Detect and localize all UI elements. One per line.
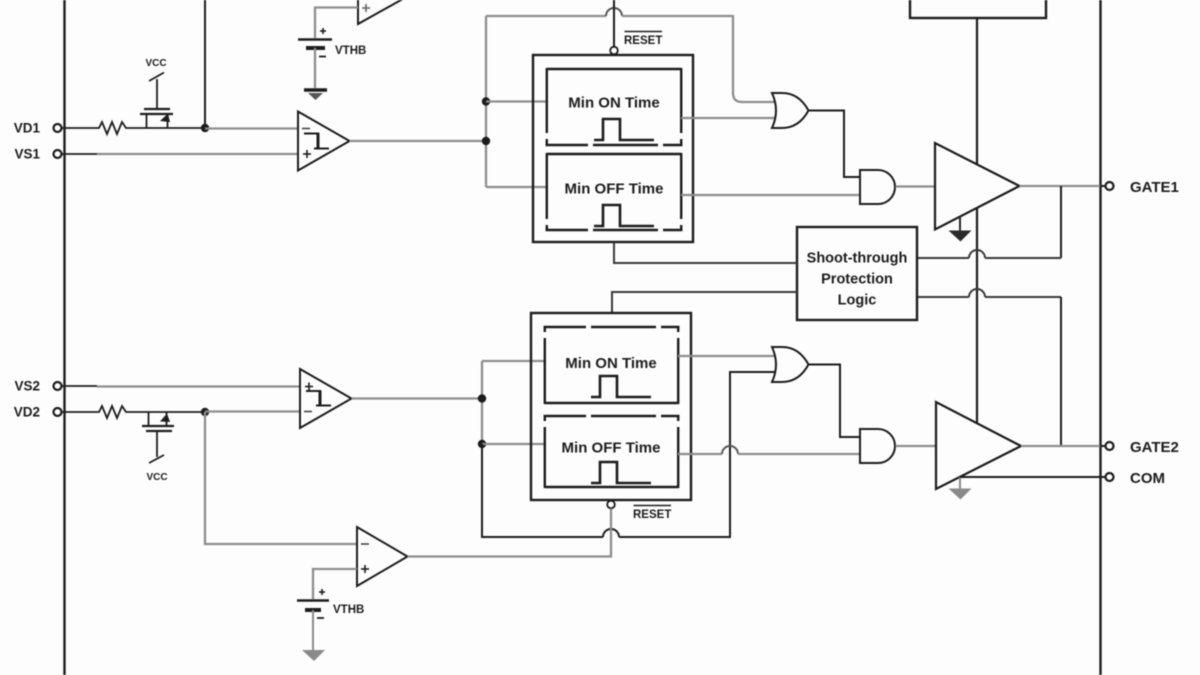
- wire feedback bottom ch2 (black, hop over RESET2): [482, 372, 779, 537]
- and-gate G2: [860, 170, 895, 204]
- wire shoot-through out1 with hop: [917, 250, 1061, 258]
- wire battery B1 to U0 plus: [315, 8, 358, 39]
- svg-text:VTHB: VTHB: [335, 45, 366, 57]
- wire Min OFF 2 output to AND2 (hop over feedback): [678, 446, 861, 454]
- one-shot Min OFF Time 1 box (dashed bottom): [546, 153, 683, 231]
- wire to Min OFF Time 1 input: [486, 186, 548, 188]
- resistor R1: [96, 122, 130, 134]
- or-gate G3: [772, 347, 809, 382]
- node junction dot (comparator U1 output): [482, 137, 490, 145]
- node junction dot (Min ON 1 input): [482, 97, 490, 105]
- Min OFF Time 2 pulse waveform: [591, 462, 651, 483]
- Min ON Time 1 label: [568, 95, 659, 112]
- wire feedback down to OR1 top input: [733, 15, 779, 102]
- comparator U0 (top, cut off): [358, 0, 410, 24]
- ground (battery B2): [302, 650, 325, 661]
- svg-text:Protection: Protection: [821, 272, 893, 288]
- svg-text:VS2: VS2: [14, 379, 40, 394]
- wire GATE1 to shoot-through out1 (black L): [1060, 186, 1062, 258]
- comparator U4 (bottom VTHB comparator): [357, 527, 408, 586]
- wire OR2 output to AND2 top input: [809, 365, 862, 438]
- comparator U2: [300, 369, 352, 428]
- wire junction column ch2 (vertical gray): [481, 361, 483, 444]
- pin VS1: [14, 147, 61, 162]
- wire node A up (black vertical): [204, 0, 206, 128]
- wire timer1 box to shoot-through in1: [614, 242, 797, 263]
- and-gate G4: [860, 429, 895, 463]
- RESET 1 bubble: [610, 47, 618, 55]
- wire timer2 box to shoot-through in2: [612, 292, 797, 313]
- RESET 1 label: [624, 32, 662, 48]
- svg-text:Min ON Time: Min ON Time: [565, 355, 656, 372]
- svg-text:Shoot-through: Shoot-through: [807, 251, 908, 267]
- svg-text:RESET: RESET: [633, 509, 671, 521]
- wire to Min ON Time 1 input: [486, 100, 548, 102]
- node junction dot (Min OFF 2 input): [478, 440, 486, 448]
- wire to Min OFF Time 2 input: [482, 443, 545, 445]
- pin GATE2: [1100, 439, 1179, 456]
- wire comparator U2 output: [352, 397, 483, 399]
- one-shot Min ON Time 2 box (dashed top): [544, 326, 680, 404]
- top box (cut off): [910, 0, 1046, 18]
- Min OFF Time 1 label: [565, 181, 664, 198]
- svg-text:RESET: RESET: [624, 35, 662, 47]
- wire comparator U1 output: [350, 140, 487, 142]
- one-shot Min OFF Time 2 box (dashed top): [544, 415, 680, 488]
- battery B2 (VTHB bottom): [297, 589, 329, 618]
- Min ON Time 2 label: [565, 355, 656, 372]
- svg-text:VCC: VCC: [145, 58, 166, 69]
- chip boundary right: [1099, 0, 1101, 675]
- wire COM from driver A2 ground: [960, 476, 1100, 478]
- VTHB label (top): [335, 45, 366, 57]
- pin COM: [1100, 470, 1165, 487]
- wire comparator U4 output to RESET2: [408, 509, 612, 557]
- wire resistor to node A: [130, 127, 205, 129]
- RESET 1 wire from top: [613, 0, 615, 47]
- svg-text:VS1: VS1: [14, 147, 40, 162]
- transistor Q1 (PMOS on VD1): [140, 73, 173, 129]
- driver A2 (gate driver buffer): [936, 402, 1021, 489]
- driver A1 (gate driver buffer): [935, 143, 1020, 230]
- wire VS1 to comparator U1 plus: [61, 153, 300, 155]
- wire top box to driver A1 (black vertical upper): [976, 18, 978, 164]
- pin VD1: [14, 121, 62, 136]
- wire VD1 to resistor: [61, 127, 96, 129]
- svg-text:VD1: VD1: [14, 121, 41, 136]
- VCC label (Q2 gate): [146, 472, 167, 483]
- svg-text:GATE1: GATE1: [1130, 179, 1179, 196]
- svg-text:Logic: Logic: [838, 293, 877, 309]
- wire VS2 to comparator U2 plus: [61, 385, 302, 388]
- pin GATE1: [1100, 179, 1179, 196]
- RESET 2 label: [633, 506, 671, 522]
- svg-text:VCC: VCC: [146, 472, 167, 483]
- timer block 1 outer box: [533, 55, 693, 242]
- wire to Min ON Time 2 input: [482, 360, 545, 362]
- node A junction dot (VD1): [201, 124, 209, 132]
- Min ON Time 2 pulse waveform: [591, 376, 651, 397]
- wire out2 down to GATE2 net: [1060, 297, 1062, 446]
- shoot-through protection logic box U5: [797, 227, 917, 320]
- wire junction column ch1 (vertical): [485, 16, 487, 187]
- Min OFF Time 1 pulse waveform: [594, 205, 654, 226]
- wire GATE1 output: [1020, 185, 1101, 187]
- wire driver A1 through to channel 2 (black vertical lower): [976, 208, 978, 423]
- wire Min ON 1 output to OR1: [681, 117, 779, 119]
- wire node B down to comparator U4 minus: [205, 412, 357, 544]
- chip boundary left: [63, 0, 65, 675]
- Min ON Time 1 pulse waveform: [594, 119, 654, 140]
- timer block 2 outer box: [531, 313, 691, 500]
- wire OR1 output to AND1 top input: [809, 111, 862, 178]
- pin VD2: [14, 405, 62, 420]
- VTHB label (bottom): [333, 604, 364, 616]
- wire feedback top ch1 with hop over RESET line: [486, 8, 733, 16]
- wire AND2 output to driver A2: [896, 445, 938, 447]
- svg-text:Min OFF Time: Min OFF Time: [565, 181, 664, 198]
- svg-text:GATE2: GATE2: [1130, 439, 1179, 456]
- wire battery B2 to U4 plus: [313, 569, 357, 599]
- resistor R2: [96, 406, 130, 418]
- svg-text:VTHB: VTHB: [333, 604, 364, 616]
- wire Min ON 2 output to OR2: [678, 355, 779, 357]
- svg-text:Min ON Time: Min ON Time: [568, 95, 659, 112]
- wire node A to comparator U1 minus: [205, 127, 300, 129]
- ground (driver A2, COM): [949, 477, 972, 500]
- wire battery B1 to ground: [314, 48, 316, 88]
- wire VD2 to resistor: [61, 411, 96, 413]
- node B junction dot (VD2): [201, 408, 209, 416]
- wire shoot-through out2 with hop: [917, 289, 1061, 297]
- or-gate G1: [772, 93, 809, 128]
- wire resistor to node B: [130, 411, 205, 413]
- battery B1 (VTHB top): [298, 28, 332, 57]
- wire battery B2 to ground: [312, 610, 314, 650]
- svg-text:VD2: VD2: [14, 405, 40, 420]
- wire GATE2 output: [1021, 445, 1100, 447]
- transistor Q2 (PMOS on VD2, mirrored): [142, 412, 174, 463]
- comparator U1: [298, 112, 350, 171]
- svg-text:COM: COM: [1130, 470, 1165, 487]
- one-shot Min ON Time 1 box (dashed bottom): [546, 68, 683, 146]
- ground (driver A1): [949, 217, 972, 242]
- node junction dot (comparator U2 output): [478, 394, 486, 402]
- wire Min OFF 1 output to AND1: [681, 194, 861, 196]
- wire AND1 output to driver A1: [896, 185, 937, 187]
- wire node B to comparator U2 minus: [205, 410, 302, 412]
- Min OFF Time 2 label: [562, 440, 661, 457]
- VCC label (Q1 gate): [145, 58, 166, 69]
- svg-text:Min OFF Time: Min OFF Time: [562, 440, 661, 457]
- pin VS2: [14, 379, 61, 394]
- ground (battery B1): [304, 90, 327, 100]
- RESET 2 bubble: [607, 501, 615, 509]
